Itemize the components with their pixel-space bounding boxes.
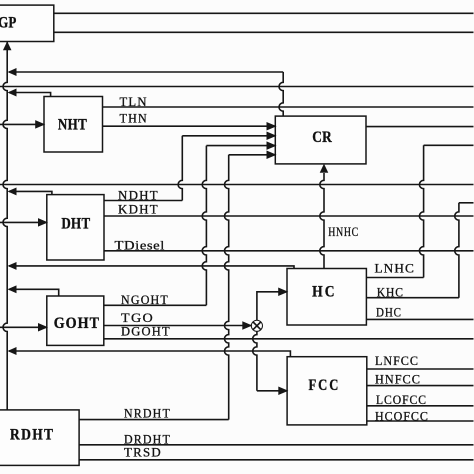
unit NHT [44,97,103,153]
arrowhead into FCC [279,387,288,395]
wire NDHT horizontal [104,200,182,202]
arrowhead NHT offgas [8,89,16,96]
svg-text:HC: HC [312,283,337,300]
wire KHC horizontal [366,297,459,299]
svg-text:KDHT: KDHT [118,203,159,217]
wire TRSD [79,459,473,461]
wire crude line A [0,86,474,88]
wire LNFCC [367,368,474,370]
svg-text:GP: GP [0,14,17,31]
wire HNFCC [367,385,474,387]
wire LNHC riser [419,145,423,277]
svg-text:NHT: NHT [58,116,87,133]
unit CR [275,116,366,164]
arrowhead THN into CR [267,122,276,130]
wire crude line B [0,184,474,186]
wire DGOHT [104,338,474,340]
wire CR offgas riser [279,72,283,116]
arrowhead DHT feed [38,219,47,227]
svg-text:HNFCC: HNFCC [375,373,421,387]
wire NGOHT horizontal [104,304,207,306]
wire NGOHT to CR [206,145,275,147]
arrowhead GOHT offgas [8,286,16,293]
svg-text:NDHT: NDHT [118,189,159,203]
wire TDiesel [104,250,474,252]
svg-text:LNHC: LNHC [375,262,415,276]
unit GOHT [47,296,104,345]
wire TGO to mixer [104,325,252,327]
wire GP output lower [54,31,474,33]
arrowhead CR offgas [8,69,16,76]
svg-text:DHT: DHT [61,216,90,233]
wire KHC top [459,202,474,204]
arrowhead into HC [279,288,288,296]
wire CR offgas horizontal [9,71,283,73]
arrowhead NDHT into CR [267,132,276,140]
svg-text:NRDHT: NRDHT [124,407,171,421]
svg-text:LCOFCC: LCOFCC [376,393,427,407]
svg-text:LNFCC: LNFCC [375,354,419,368]
svg-text:DRDHT: DRDHT [124,432,171,446]
wire DHT feed [0,221,47,223]
wire mixer to FCC riser [253,331,257,390]
wire LNHC horizontal [366,277,423,279]
arrowhead DHT offgas [8,188,16,195]
unit HC [287,269,366,326]
arrowhead HNHC into CR [320,164,328,172]
svg-text:THN: THN [120,112,148,126]
svg-text:DHC: DHC [376,306,402,320]
wire GOHT feed [0,326,47,328]
svg-text:FCC: FCC [308,377,340,394]
arrowhead into GP bottom [3,42,11,50]
svg-text:KHC: KHC [377,285,404,299]
wire GOHT offgas [9,289,59,296]
wire mixer to FCC horizontal [257,390,287,392]
wire HNHC riser [320,173,324,269]
junction mixer circle [251,320,262,331]
svg-text:CR: CR [312,129,332,146]
arrowhead NRDHT into CR [267,151,276,159]
svg-text:TLN: TLN [120,95,148,109]
wire LNHC top [424,144,474,146]
svg-text:GOHT: GOHT [54,315,100,332]
svg-text:TGO: TGO [121,311,154,325]
arrowhead GOHT feed [38,324,47,332]
svg-text:TDiesel: TDiesel [115,238,165,252]
wire GP output upper [54,12,474,14]
wire DHT offgas [9,191,52,194]
wire HCOFCC [367,420,474,422]
wire FCC offgas [9,351,290,357]
arrowhead TGO into mixer [243,322,252,330]
wire NDHT to CR [182,135,275,137]
svg-text:HNHC: HNHC [328,225,359,239]
wire NHT offgas [9,93,51,97]
wire LCOFCC [367,405,474,407]
wire TLN [103,106,474,108]
svg-text:RDHT: RDHT [10,427,54,444]
arrowhead FCC offgas [8,348,16,355]
arrowhead NGOHT into CR [267,142,276,150]
unit GP (gas plant) [0,5,54,41]
wire NHT feed [0,123,44,125]
wire DRDHT [79,444,473,446]
svg-text:HCOFCC: HCOFCC [375,410,429,424]
wire NRDHT to CR [229,154,276,156]
wire HC offgas [9,266,294,269]
wire KDHT [104,215,474,217]
wire NRDHT riser [225,155,229,420]
unit RDHT [0,410,79,466]
wire gas header vertical to GP [3,42,7,410]
svg-text:TRSD: TRSD [124,445,162,459]
wire mixer to HC [257,292,287,320]
wire KHC riser [455,203,459,298]
svg-text:DGOHT: DGOHT [121,325,171,339]
wire THN to CR [103,125,276,127]
arrowhead HC offgas [8,262,16,269]
arrowhead NHT feed [36,121,45,129]
wire NDHT riser [178,136,182,201]
wire CR reformate [366,126,474,128]
unit DHT [47,195,104,260]
wire DHC [366,318,473,320]
wire NGOHT riser [202,146,206,306]
wire NRDHT horizontal [79,419,229,421]
svg-text:NGOHT: NGOHT [121,293,169,307]
unit FCC [287,357,367,425]
